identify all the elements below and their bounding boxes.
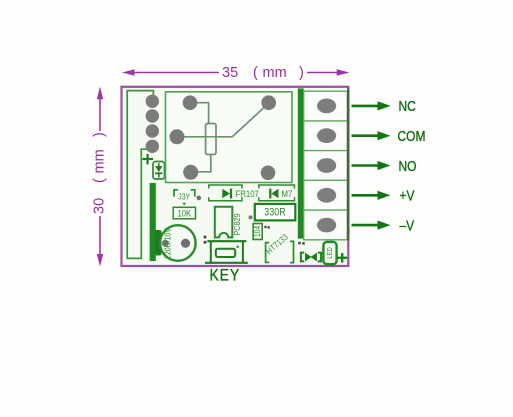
relay K1 outline bbox=[166, 92, 293, 183]
plus mark near LED bbox=[338, 253, 348, 263]
PCB board outline bbox=[122, 87, 349, 266]
pad near Q1 bbox=[197, 196, 202, 201]
svg-text:35(mm): 35(mm) bbox=[222, 65, 304, 81]
pin arrow NO bbox=[352, 161, 391, 170]
electrolytic capacitor C1 polarity bar bbox=[155, 230, 162, 256]
svg-text:–V: –V bbox=[400, 217, 415, 234]
connector J1 silk outline bbox=[127, 91, 153, 259]
terminal block cells bbox=[304, 91, 348, 240]
electrolytic capacitor C1 body bbox=[160, 225, 196, 261]
svg-text:330R: 330R bbox=[264, 207, 286, 219]
dimension line 30 (mm) bbox=[97, 87, 103, 267]
LED LD1 bbox=[323, 242, 336, 264]
svg-text:FR107: FR107 bbox=[236, 188, 259, 199]
svg-text:NO: NO bbox=[399, 158, 417, 175]
svg-text:KEY: KEY bbox=[210, 267, 241, 285]
svg-text:104: 104 bbox=[252, 226, 262, 237]
mark near SW1 bbox=[237, 246, 239, 248]
key switch SW1 bbox=[205, 241, 248, 263]
pin arrow -V bbox=[352, 221, 391, 230]
diode pair D5 bbox=[301, 253, 321, 262]
transistor Q1 J3Y brackets bbox=[174, 190, 195, 197]
svg-text:30(mm): 30(mm) bbox=[92, 132, 108, 214]
pads left of SW1 bbox=[204, 236, 207, 239]
diode D1 symbol bbox=[155, 163, 162, 178]
svg-text:PC829: PC829 bbox=[232, 213, 242, 235]
diode D2 FR107 silk frame bbox=[209, 185, 242, 201]
svg-text:220U/10V: 220U/10V bbox=[163, 227, 173, 259]
svg-text:J3Y: J3Y bbox=[178, 192, 190, 202]
resistor R1 10K bbox=[173, 207, 195, 219]
pin arrow COM bbox=[352, 131, 391, 140]
resistor R2 330R bbox=[255, 204, 295, 221]
pin arrow +V bbox=[352, 191, 391, 200]
pads near C2 bbox=[264, 226, 266, 228]
dark right edge where cells meet board border bbox=[347, 89, 349, 241]
relay wiring bbox=[181, 103, 267, 172]
relay coil line through bbox=[206, 136, 216, 138]
diode D3 M7 silk frame bbox=[259, 185, 295, 201]
pads below terminal block bbox=[298, 242, 301, 245]
relay coil bbox=[206, 124, 216, 155]
plus polarity mark bbox=[142, 154, 153, 165]
capacitor C1 pads bbox=[162, 240, 169, 247]
optocoupler U1 body bbox=[215, 207, 233, 238]
mark below Q1 bbox=[182, 203, 186, 206]
terminal block bar bbox=[298, 88, 304, 238]
svg-text:COM: COM bbox=[398, 128, 426, 145]
diode D3 M7 symbol bbox=[269, 189, 278, 199]
svg-text:NC: NC bbox=[399, 98, 416, 115]
capacitor C2 104 bbox=[253, 224, 262, 240]
svg-text:+V: +V bbox=[400, 187, 415, 204]
svg-text:M7: M7 bbox=[282, 188, 293, 199]
relay pads bbox=[170, 95, 277, 180]
svg-text:LED: LED bbox=[327, 247, 335, 259]
pin arrow NC bbox=[352, 101, 391, 110]
terminal holes bbox=[317, 99, 336, 233]
diode D1 silk box bbox=[153, 162, 165, 180]
connector J1 pin holes bbox=[146, 95, 159, 153]
svg-text:10K: 10K bbox=[177, 208, 191, 219]
regulator U2 HT7133 brackets bbox=[266, 241, 294, 262]
diode D2 FR107 symbol bbox=[222, 189, 232, 199]
pad near U1 bbox=[249, 215, 253, 219]
dimension line 35 (mm) bbox=[122, 69, 350, 75]
thick silk bar bbox=[150, 183, 156, 261]
